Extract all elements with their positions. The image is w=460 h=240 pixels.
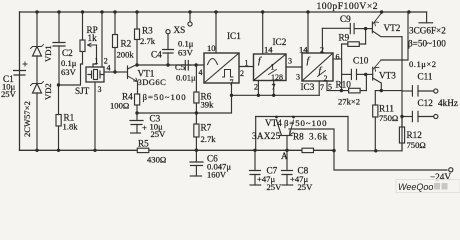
resistor R11 bbox=[373, 91, 378, 151]
svg-text:β=50~100: β=50~100 bbox=[143, 92, 187, 102]
wire SJT pin1 bbox=[93, 64, 97, 67]
transistor VT4 bbox=[277, 120, 294, 150]
svg-text:200k: 200k bbox=[117, 50, 135, 60]
svg-text:1k: 1k bbox=[88, 33, 98, 43]
transistor VT3 bbox=[366, 60, 382, 91]
svg-text:7: 7 bbox=[272, 83, 276, 92]
transistor VT2 bbox=[366, 13, 402, 37]
svg-text:R2: R2 bbox=[121, 39, 132, 49]
svg-text:25V: 25V bbox=[298, 182, 314, 192]
svg-text:XS: XS bbox=[174, 25, 186, 35]
wire VT2 emitter drop bbox=[401, 37, 403, 151]
wire output emitter row bbox=[375, 90, 402, 92]
svg-text:R12: R12 bbox=[407, 130, 423, 140]
wire VD branch bbox=[36, 12, 38, 46]
svg-text:7: 7 bbox=[320, 83, 324, 92]
svg-text:β=50~100: β=50~100 bbox=[284, 118, 327, 128]
svg-text:1: 1 bbox=[95, 57, 99, 66]
capacitor C7 bbox=[250, 150, 261, 185]
svg-text:25V: 25V bbox=[151, 129, 167, 139]
resistor R4 bbox=[135, 94, 140, 113]
potentiometer RP bbox=[80, 12, 97, 64]
connector XS bbox=[166, 12, 192, 34]
svg-text:750Ω: 750Ω bbox=[379, 113, 398, 123]
capacitor C8 bbox=[282, 150, 293, 185]
svg-text:3: 3 bbox=[98, 85, 102, 94]
svg-text:R11: R11 bbox=[379, 104, 394, 114]
svg-text:2CW57×2: 2CW57×2 bbox=[22, 101, 32, 137]
svg-text:R10: R10 bbox=[336, 80, 352, 90]
wire emitter return U bbox=[348, 117, 402, 151]
svg-text:R5: R5 bbox=[138, 139, 149, 149]
svg-text:2: 2 bbox=[320, 46, 324, 55]
capacitor C12 bbox=[402, 111, 438, 121]
wire VT3 collector to rail bbox=[381, 12, 408, 60]
svg-text:R8: R8 bbox=[293, 132, 304, 142]
transistor VT1 bbox=[128, 65, 138, 95]
resistor R12 bbox=[399, 117, 404, 151]
svg-text:39k: 39k bbox=[201, 100, 215, 110]
wire right drop to -24V rail bbox=[334, 150, 447, 170]
svg-text:2.7k: 2.7k bbox=[140, 36, 156, 46]
op-amp block IC1 bbox=[204, 12, 239, 95]
capacitor C6 bbox=[190, 150, 203, 176]
diode VD2 bbox=[31, 82, 44, 151]
resistor R10 bbox=[341, 74, 366, 93]
capacitor C10 bbox=[342, 69, 366, 79]
svg-text:750Ω: 750Ω bbox=[407, 140, 426, 150]
wire R8 loop top bbox=[289, 129, 334, 150]
svg-text:β=50~100: β=50~100 bbox=[408, 39, 446, 49]
terminal -24V bbox=[449, 168, 453, 172]
svg-text:VD2: VD2 bbox=[43, 83, 53, 100]
svg-text:2.7k: 2.7k bbox=[201, 134, 217, 144]
svg-text:0.1μ×2: 0.1μ×2 bbox=[409, 59, 437, 69]
svg-text:VT4: VT4 bbox=[265, 118, 282, 128]
svg-text:2: 2 bbox=[254, 83, 258, 92]
wire VT4 left drop bbox=[255, 117, 257, 151]
svg-text:WeeQoo: WeeQoo bbox=[398, 182, 433, 192]
svg-text:1.8k: 1.8k bbox=[63, 122, 79, 132]
wire SJT pin2 bbox=[101, 12, 103, 67]
wire left edge vertical bbox=[19, 12, 21, 150]
svg-text:VT2: VT2 bbox=[384, 23, 401, 33]
svg-text:IC3: IC3 bbox=[301, 82, 315, 92]
svg-text:2: 2 bbox=[324, 74, 328, 83]
svg-text:IC2: IC2 bbox=[273, 37, 287, 47]
svg-text:14: 14 bbox=[264, 45, 273, 55]
wire SJT pin3 bbox=[94, 82, 96, 150]
capacitor C9 bbox=[350, 24, 365, 34]
resistor R8 bbox=[302, 148, 314, 152]
svg-text:VT3: VT3 bbox=[379, 71, 396, 81]
wire SJT pin4 to base node bbox=[104, 71, 115, 73]
svg-text:63V: 63V bbox=[61, 67, 77, 77]
svg-text:C5: C5 bbox=[175, 62, 185, 72]
svg-text:SJT: SJT bbox=[75, 86, 90, 96]
wire IC2 pin3 to IC3 bbox=[286, 66, 302, 68]
svg-text:160V: 160V bbox=[207, 170, 227, 180]
resistor R7 bbox=[194, 113, 199, 150]
capacitor C4 bbox=[163, 34, 174, 65]
svg-text:10: 10 bbox=[207, 43, 216, 53]
svg-text:0.01μ: 0.01μ bbox=[176, 73, 196, 83]
svg-text:VD1: VD1 bbox=[43, 45, 53, 62]
svg-text:128: 128 bbox=[271, 73, 283, 82]
wire VT4 collector row bbox=[256, 116, 348, 118]
capacitor C2 bbox=[53, 12, 65, 85]
wire IC3 pin2 to C9 bbox=[322, 27, 350, 29]
resistor R5 bbox=[137, 148, 149, 152]
svg-text:6: 6 bbox=[336, 53, 340, 62]
svg-text:A: A bbox=[281, 151, 288, 161]
svg-text:27k×2: 27k×2 bbox=[338, 97, 360, 107]
capacitor C11 bbox=[402, 86, 438, 96]
svg-text:3DG6C: 3DG6C bbox=[138, 77, 167, 87]
svg-text:3: 3 bbox=[288, 57, 292, 66]
divider block IC3 bbox=[302, 12, 342, 95]
capacitor C3 bbox=[130, 113, 143, 133]
svg-text:2: 2 bbox=[240, 69, 244, 78]
resistor R3 bbox=[135, 12, 140, 65]
svg-text:R9: R9 bbox=[339, 33, 350, 43]
svg-text:1: 1 bbox=[245, 59, 249, 68]
wire IC1 pin1 to IC2 bbox=[239, 66, 254, 68]
svg-text:C9: C9 bbox=[340, 14, 351, 24]
diode VD1 bbox=[31, 45, 44, 84]
svg-text:4kHz: 4kHz bbox=[438, 98, 458, 108]
svg-text:3.6k: 3.6k bbox=[309, 132, 328, 142]
svg-text:25V: 25V bbox=[1, 89, 17, 99]
wire C2 junction to SJT bbox=[59, 64, 83, 85]
svg-text:63V: 63V bbox=[178, 48, 194, 58]
resistor R2 bbox=[113, 12, 118, 72]
svg-text:C12: C12 bbox=[418, 98, 434, 108]
resistor R6 bbox=[194, 65, 199, 113]
divider block IC2 bbox=[254, 12, 287, 95]
wire base node to VT1 bbox=[115, 71, 128, 73]
svg-text:3CG6F×2: 3CG6F×2 bbox=[409, 26, 446, 36]
svg-text:C11: C11 bbox=[418, 72, 433, 82]
svg-text:5: 5 bbox=[328, 83, 332, 92]
svg-text:R7: R7 bbox=[201, 123, 212, 133]
svg-text:4: 4 bbox=[107, 64, 111, 73]
svg-text:C2: C2 bbox=[62, 48, 73, 58]
wire collector row bbox=[137, 64, 191, 66]
svg-text:C4: C4 bbox=[151, 50, 162, 60]
svg-text:IC1: IC1 bbox=[227, 31, 241, 41]
resistor R9 bbox=[342, 29, 366, 91]
wire digital ground bus bbox=[232, 94, 320, 96]
svg-text:C10: C10 bbox=[353, 56, 369, 66]
svg-text:430Ω: 430Ω bbox=[147, 155, 166, 165]
svg-text:100Ω: 100Ω bbox=[110, 101, 129, 111]
svg-text:+: + bbox=[142, 123, 147, 133]
svg-text:25V: 25V bbox=[267, 182, 283, 192]
watermark WeeQoo bbox=[396, 180, 460, 193]
svg-text:3: 3 bbox=[296, 73, 300, 82]
wire top supply rail bbox=[20, 11, 427, 13]
svg-text:14: 14 bbox=[299, 45, 308, 55]
svg-text:1: 1 bbox=[271, 63, 275, 72]
svg-text:100pF100V×2: 100pF100V×2 bbox=[317, 1, 379, 12]
svg-text:4: 4 bbox=[199, 68, 203, 77]
terminal top-right stub bbox=[419, 12, 433, 23]
capacitor C5 bbox=[185, 61, 204, 71]
svg-text:3AX25: 3AX25 bbox=[252, 131, 281, 141]
svg-text:R3: R3 bbox=[142, 26, 153, 36]
wire bottom rail bbox=[20, 149, 335, 151]
resistor R1 bbox=[56, 85, 61, 150]
wire emitter row bbox=[137, 95, 232, 113]
svg-text:−24V: −24V bbox=[430, 172, 451, 182]
svg-text:7: 7 bbox=[230, 78, 234, 87]
unijunction SJT box bbox=[86, 67, 104, 82]
capacitor C1 bbox=[14, 12, 28, 150]
